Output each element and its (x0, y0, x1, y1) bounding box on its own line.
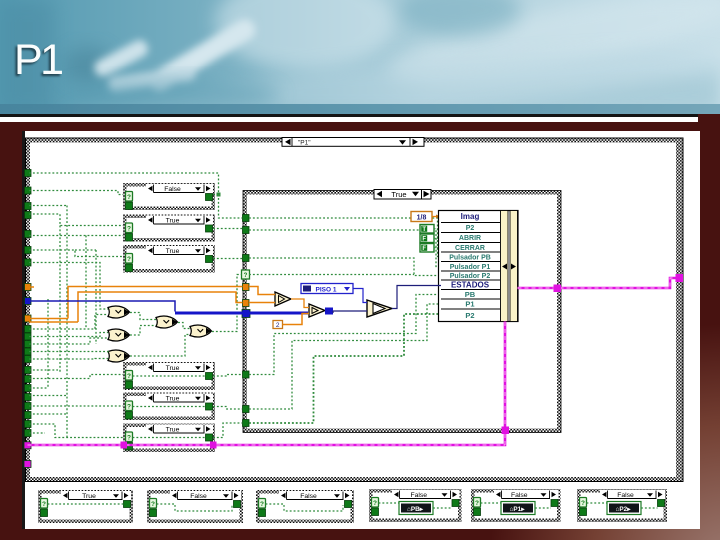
svg-text:"P1": "P1" (298, 140, 311, 147)
wire G3 to G5 (130, 335, 190, 357)
separator white band (0, 117, 698, 122)
case structure BD (369, 489, 462, 522)
wire orange float run B (29, 292, 243, 322)
svg-text:True: True (391, 190, 406, 199)
tunnel green L11 (25, 356, 32, 363)
svg-text:Pulsador P2: Pulsador P2 (450, 273, 491, 280)
tunnel green L6 (25, 259, 32, 266)
svg-text:Pulsador PB: Pulsador PB (449, 254, 491, 261)
svg-text:True: True (166, 248, 180, 255)
svg-text:?: ? (127, 225, 131, 232)
numeric constant 2 (273, 321, 283, 330)
tunnel green L14 (25, 385, 32, 392)
svg-text:⌂P1▸: ⌂P1▸ (510, 506, 526, 513)
wire orange 1/8 to Imag (432, 216, 438, 218)
comparison node T3 (367, 300, 392, 317)
tunnel in G3 (243, 255, 250, 262)
svg-text:Imag: Imag (461, 212, 480, 221)
wire border stub bottom (29, 432, 45, 434)
svg-text:?: ? (127, 194, 131, 201)
svg-text:False: False (164, 186, 181, 193)
wire tunnel to Pulsador PB row (249, 218, 441, 257)
svg-text:F: F (422, 237, 426, 243)
wire PISO1 to T3 (353, 289, 367, 303)
wire cross vertical B (85, 236, 87, 330)
magenta junction inner border right (554, 285, 562, 293)
svg-text:?: ? (127, 403, 131, 410)
svg-text:False: False (300, 493, 317, 500)
wire blue int thick (175, 312, 308, 315)
case structure BE (471, 489, 561, 522)
wire border to B1 input (29, 191, 123, 195)
tunnel green L5 (25, 247, 32, 254)
wire border to G3 input B (29, 358, 108, 361)
inner structure selector label "True" (374, 190, 431, 200)
wire staircase tunnel to P1 row (249, 304, 441, 409)
wire magenta cluster bottom run (28, 322, 506, 446)
tunnel in Q (242, 270, 250, 279)
case structure BF (577, 489, 667, 522)
wire border to B2 input (29, 214, 123, 226)
wire cross vertical C (75, 250, 96, 344)
magenta junction inner border bottom (502, 427, 510, 435)
boolean constant F2 (420, 234, 440, 243)
ring constant PISO 1 (301, 284, 353, 294)
tunnel in G1 (243, 215, 250, 222)
comparison node T2 (309, 304, 325, 317)
magenta tunnel B6 left (121, 442, 128, 449)
svg-text:P2: P2 (466, 225, 475, 232)
logic gate G2 (108, 329, 130, 341)
logic gate G1 (108, 306, 130, 318)
wire B4 output to inner tunnel (213, 375, 243, 377)
svg-text:P1: P1 (465, 300, 474, 309)
tunnel green L12 (25, 367, 32, 374)
svg-text:True: True (166, 396, 180, 403)
tunnel green L8 (25, 333, 32, 340)
slide title P1 (14, 36, 62, 85)
separator black line (0, 114, 698, 118)
svg-text:T: T (422, 227, 426, 233)
wire border to G2 input A (29, 333, 108, 337)
magenta tunnel outer right (676, 274, 684, 282)
wire magenta cluster output run (518, 278, 677, 288)
svg-text:CERRAR: CERRAR (455, 245, 485, 252)
svg-text:?: ? (475, 500, 479, 507)
svg-text:?: ? (373, 500, 377, 507)
logic gate G4 (156, 316, 178, 328)
wire border to B4 input (29, 375, 123, 379)
wire border to G1 input B (29, 315, 108, 330)
svg-text:False: False (410, 492, 427, 499)
wire blue junction (325, 308, 333, 315)
tunnel in G2 (243, 227, 250, 234)
wire B3 output to inner tunnel (213, 258, 243, 260)
tunnel green L1 (25, 187, 32, 194)
svg-text:2: 2 (276, 322, 280, 329)
wire orange float run A (29, 287, 243, 319)
svg-text:?: ? (127, 434, 131, 441)
wire staircase tunnel to P2 row (249, 314, 441, 423)
wire border to B2 solid terminal (29, 235, 123, 237)
wire constant 2 to T2 (283, 314, 310, 325)
case structure B3 (123, 245, 215, 273)
tunnel in O1 (243, 284, 250, 291)
wire B6 output to inner tunnel (213, 423, 243, 438)
tunnel green L16 (25, 403, 32, 410)
case structure BA (38, 490, 133, 523)
svg-text:?: ? (244, 273, 248, 279)
wire G4 to G5 (178, 323, 190, 329)
tunnel in G5 (243, 406, 250, 413)
tunnel orange L2 (25, 315, 32, 322)
tunnel magenta L1 (24, 442, 31, 449)
wire border to B3 input (29, 250, 123, 257)
wire G1 to G4 (130, 313, 156, 320)
tunnel green L17 (25, 412, 32, 419)
inner case structure border (243, 191, 561, 433)
svg-text:?: ? (127, 373, 131, 380)
magenta tunnel B6 right (210, 442, 217, 449)
wire orange tunnel to T1 input B (249, 302, 275, 304)
header photo (chalk sticks) (0, 0, 720, 114)
svg-text:True: True (166, 365, 180, 372)
case structure B2 (123, 215, 215, 242)
svg-text:True: True (166, 218, 180, 225)
svg-text:True: True (82, 493, 96, 500)
tunnel green L0 (25, 170, 32, 177)
svg-text:Pulsador P1: Pulsador P1 (450, 264, 491, 271)
wire G5 to inner ? tunnel (212, 275, 242, 332)
wire B5 output to inner tunnel (213, 407, 243, 410)
wire B1 output stub (213, 194, 219, 196)
logic gate G3 (108, 350, 130, 362)
case structure B4 (123, 362, 215, 390)
tunnel green L2 (25, 203, 32, 210)
svg-text:F: F (422, 246, 426, 252)
tunnel in G4 (243, 371, 250, 378)
tunnel in G6 (243, 420, 250, 427)
wire navy T2 to T3 (333, 311, 367, 313)
svg-text:False: False (617, 492, 634, 499)
wire staircase tunnel to PB row (249, 295, 441, 375)
svg-text:PISO 1: PISO 1 (316, 287, 337, 294)
case structure B5 (123, 393, 215, 421)
tunnel green L10 (25, 348, 32, 355)
case structure B1 (123, 183, 215, 210)
svg-text:P2: P2 (465, 311, 474, 320)
wire blue int thin (28, 301, 175, 312)
wire T1 out to T2 (291, 299, 309, 308)
wire T3 to ESTADOS (392, 286, 441, 309)
boolean constant T1 (420, 225, 440, 234)
screenshot white area (24, 131, 700, 529)
bundle by name node (439, 211, 519, 322)
tunnel in O2 (243, 300, 250, 307)
tunnel orange L1 (25, 284, 32, 291)
svg-text:?: ? (42, 501, 46, 508)
case structure BC (256, 490, 354, 523)
wire ? tunnel to Pulsador P2 row (b) (249, 274, 414, 276)
screenshot left frame line (22, 131, 25, 529)
wire long vertical feed (29, 206, 67, 438)
svg-text:ABRIR: ABRIR (459, 235, 481, 242)
svg-text:?: ? (581, 500, 585, 507)
wire border to G1 input A (29, 263, 108, 310)
svg-text:?: ? (260, 501, 264, 508)
outer case structure border (26, 138, 684, 482)
svg-text:PB: PB (465, 290, 476, 299)
slide background (0, 112, 720, 540)
tunnel green L19 (25, 430, 32, 437)
svg-text:1/8: 1/8 (417, 215, 427, 222)
wire tunnel to Pulsador P1 row (249, 230, 441, 267)
tunnel green L13 (25, 376, 32, 383)
wire tunnel to Pulsador P2 row (a) (249, 258, 441, 276)
node 1/8 constant (411, 212, 432, 222)
wire border to inner tunnel via top (29, 173, 243, 218)
tunnel green L9 (25, 341, 32, 348)
tunnel green L7 (25, 326, 32, 333)
svg-text:ESTADOS: ESTADOS (451, 280, 490, 289)
svg-text:False: False (190, 493, 207, 500)
svg-text:True: True (166, 427, 180, 434)
svg-text:?: ? (127, 256, 131, 263)
svg-text:⌂P2▸: ⌂P2▸ (616, 506, 632, 513)
tunnel green L18 (25, 421, 32, 428)
boolean constant F3 (420, 244, 440, 253)
tunnel green L15 (25, 394, 32, 401)
wire orange tunnel to T1 input A (249, 287, 275, 295)
wire border to G2 input B (29, 338, 108, 344)
tunnel magenta L2 (24, 461, 31, 468)
wire border stubs lower (29, 369, 58, 371)
wire B2 output to inner tunnel (213, 228, 243, 230)
wire border to G3 input A (29, 352, 108, 353)
tunnel blue L (25, 298, 32, 305)
svg-text:?: ? (151, 501, 155, 508)
wire G2 to G4 (130, 326, 156, 336)
wire border to B5 input (29, 405, 123, 407)
tunnel green L3 (25, 212, 32, 219)
svg-text:False: False (511, 492, 528, 499)
outer structure selector label (282, 138, 424, 147)
wire border to B6 input (29, 424, 123, 438)
comparison node T1 (275, 292, 291, 306)
tunnel green L4 (25, 231, 32, 238)
case structure B6 (123, 424, 215, 453)
case structure BB (147, 490, 243, 523)
wire cross vertical A (59, 226, 61, 373)
svg-text:⌂PB▸: ⌂PB▸ (407, 506, 424, 513)
logic gate G5 (190, 325, 212, 337)
wire orange stub (29, 286, 34, 288)
tunnel in BL (242, 310, 250, 318)
